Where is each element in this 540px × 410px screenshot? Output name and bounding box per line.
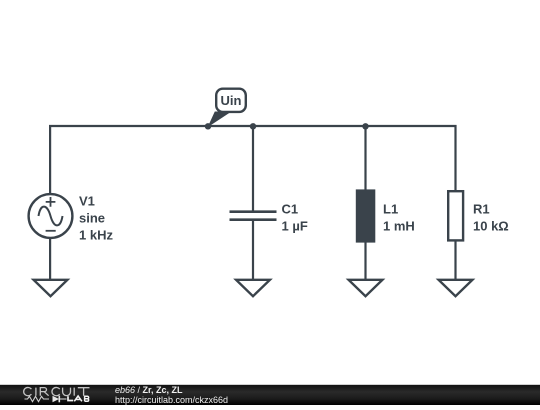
node: Uin anchor junction dot bbox=[205, 123, 211, 129]
footer logo: CIRCUIT wordmark letter C bbox=[24, 387, 32, 395]
ground symbol (V1 branch) bbox=[34, 280, 68, 296]
voltage source V1: circle body bbox=[29, 194, 73, 238]
net flag Uin: pointer tail bbox=[208, 112, 232, 128]
svg-text:sine: sine bbox=[79, 210, 105, 225]
wire: C1 top riser bbox=[252, 125, 254, 211]
footer logo: LAB wordmark letter A bbox=[74, 396, 82, 401]
wire: L1 bottom to ground bbox=[364, 242, 366, 279]
ground symbol (C1 branch) bbox=[236, 280, 270, 296]
wire: top bus from left corner to right corner bbox=[49, 125, 457, 127]
node: C1 branch junction dot bbox=[250, 123, 256, 129]
voltage source V1: plus mark bbox=[46, 197, 56, 207]
capacitor C1: bottom plate bbox=[230, 218, 277, 221]
wire: V1 bottom to ground bbox=[49, 239, 51, 279]
footer logo: CIRCUIT wordmark letter T bbox=[78, 388, 90, 396]
wire: right riser down to R1 top bbox=[454, 125, 456, 191]
footer: black banner bar bbox=[0, 385, 540, 405]
svg-text:C1: C1 bbox=[282, 201, 299, 216]
capacitor C1: top plate bbox=[230, 210, 277, 213]
svg-text:Uin: Uin bbox=[221, 93, 242, 108]
footer logo: resistor zigzag bbox=[25, 396, 50, 401]
net flag Uin: rounded label box bbox=[216, 89, 246, 112]
footer logo: CIRCUIT wordmark letter I bbox=[35, 388, 37, 396]
footer logo: CIRCUIT wordmark letter R bbox=[40, 388, 48, 396]
wire: L1 top riser bbox=[364, 125, 366, 190]
svg-text:1 mH: 1 mH bbox=[383, 218, 415, 233]
footer logo: LAB wordmark letter B bbox=[85, 396, 89, 401]
ground symbol (L1 branch) bbox=[349, 280, 383, 296]
wire: C1 bottom to ground bbox=[252, 220, 254, 279]
node: L1 branch junction dot bbox=[362, 123, 368, 129]
voltage source V1: minus mark bbox=[46, 230, 56, 232]
voltage source V1: sine wave bbox=[39, 207, 63, 226]
svg-text:http://circuitlab.com/ckzx66d: http://circuitlab.com/ckzx66d bbox=[115, 395, 228, 405]
resistor R1: outlined body bbox=[448, 191, 463, 240]
svg-text:eb66 / Zr, Zc, ZL: eb66 / Zr, Zc, ZL bbox=[115, 385, 183, 395]
footer logo: diode symbol bbox=[53, 396, 60, 403]
svg-text:1 µF: 1 µF bbox=[282, 218, 308, 233]
svg-text:10 kΩ: 10 kΩ bbox=[473, 218, 509, 233]
footer logo: CIRCUIT wordmark letter I bbox=[73, 388, 75, 396]
ground symbol (R1 branch) bbox=[439, 280, 473, 296]
footer logo: CIRCUIT wordmark letter C bbox=[52, 387, 60, 395]
svg-text:1 kHz: 1 kHz bbox=[79, 227, 113, 242]
wire: left riser down to V1 top bbox=[49, 125, 51, 194]
inductor L1: solid body bbox=[356, 189, 376, 242]
wire: R1 bottom to ground bbox=[454, 242, 456, 280]
svg-text:L1: L1 bbox=[383, 201, 398, 216]
footer logo: LAB wordmark letter L bbox=[68, 396, 73, 400]
footer logo: CIRCUIT wordmark letter U bbox=[63, 388, 71, 396]
svg-text:R1: R1 bbox=[473, 201, 490, 216]
svg-text:V1: V1 bbox=[79, 193, 95, 208]
